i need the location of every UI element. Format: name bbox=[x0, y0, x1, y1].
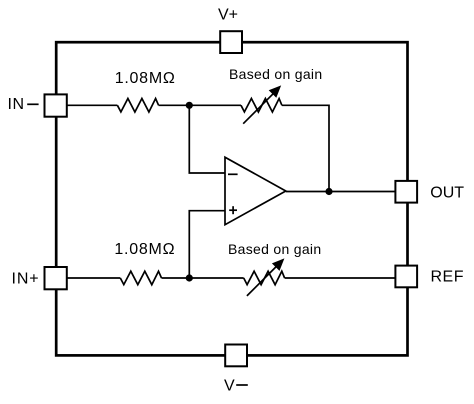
svg-text:IN+: IN+ bbox=[12, 270, 40, 287]
svg-text:OUT: OUT bbox=[430, 185, 464, 202]
svg-text:REF: REF bbox=[431, 269, 465, 286]
svg-text:V+: V+ bbox=[218, 6, 238, 23]
svg-text:Based on gain: Based on gain bbox=[228, 241, 321, 257]
svg-text:1.08MΩ: 1.08MΩ bbox=[115, 70, 176, 87]
svg-text:1.08MΩ: 1.08MΩ bbox=[114, 241, 175, 258]
svg-text:V: V bbox=[224, 378, 235, 395]
svg-text:Based on gain: Based on gain bbox=[229, 66, 322, 82]
svg-text:IN: IN bbox=[8, 96, 25, 113]
